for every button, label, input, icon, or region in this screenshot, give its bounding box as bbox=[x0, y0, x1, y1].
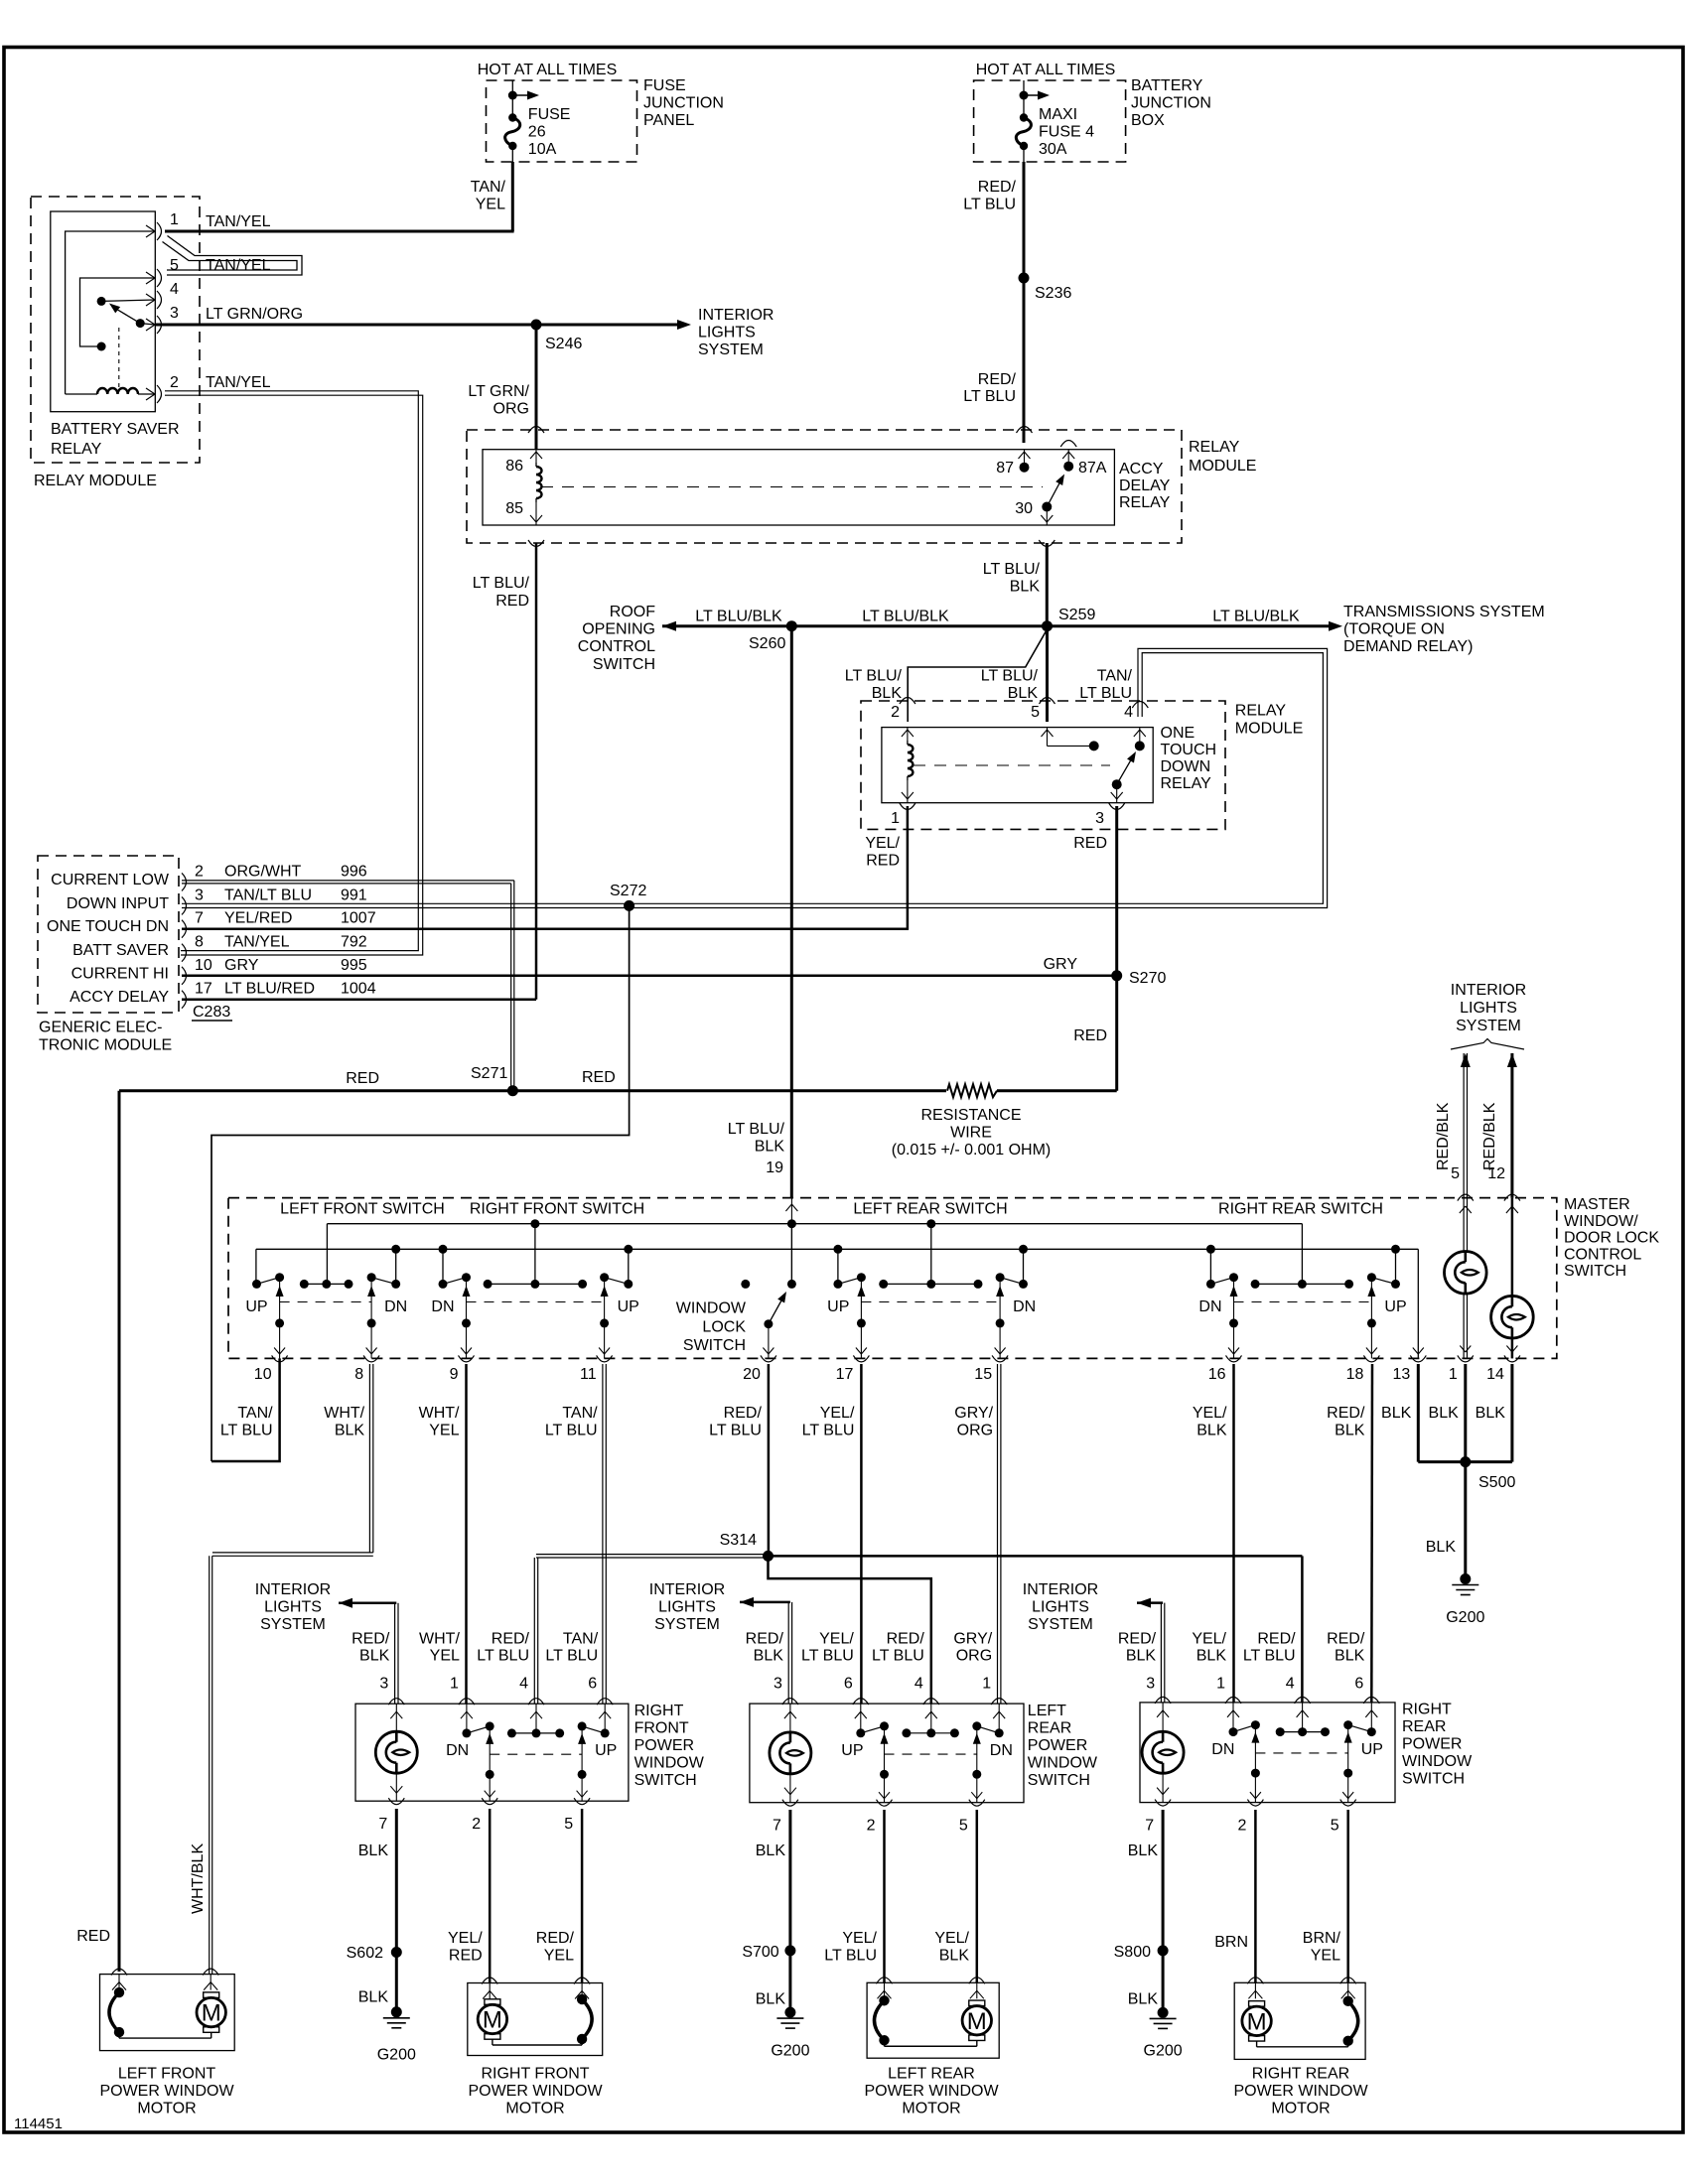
svg-text:SWITCH: SWITCH bbox=[1028, 1772, 1090, 1789]
svg-text:4: 4 bbox=[914, 1676, 923, 1693]
svg-text:G200: G200 bbox=[377, 2046, 416, 2063]
svg-text:CURRENT LOW: CURRENT LOW bbox=[51, 872, 170, 888]
svg-text:BLK: BLK bbox=[756, 1843, 786, 1859]
svg-text:ONE: ONE bbox=[1161, 725, 1196, 742]
svg-text:BRN: BRN bbox=[1214, 1934, 1248, 1951]
svg-text:6: 6 bbox=[1354, 1676, 1363, 1693]
svg-text:26: 26 bbox=[528, 124, 546, 141]
svg-text:RED: RED bbox=[495, 593, 529, 610]
svg-text:2: 2 bbox=[1237, 1818, 1246, 1835]
svg-text:POWER: POWER bbox=[1028, 1737, 1087, 1754]
svg-text:PANEL: PANEL bbox=[643, 112, 694, 129]
svg-text:LT GRN/: LT GRN/ bbox=[468, 383, 529, 400]
svg-text:1007: 1007 bbox=[341, 910, 376, 927]
svg-text:(0.015 +/- 0.001 OHM): (0.015 +/- 0.001 OHM) bbox=[892, 1142, 1052, 1159]
svg-text:SWITCH: SWITCH bbox=[1402, 1771, 1465, 1788]
svg-text:LT BLU: LT BLU bbox=[220, 1423, 273, 1439]
svg-text:DN: DN bbox=[1198, 1298, 1221, 1315]
svg-text:BLK: BLK bbox=[1126, 1647, 1157, 1664]
svg-text:FRONT: FRONT bbox=[634, 1720, 689, 1737]
svg-text:UP: UP bbox=[1361, 1741, 1383, 1758]
svg-text:2: 2 bbox=[891, 704, 900, 721]
svg-text:BLK: BLK bbox=[1335, 1647, 1365, 1664]
svg-text:10: 10 bbox=[195, 957, 212, 974]
svg-text:1: 1 bbox=[1216, 1676, 1225, 1693]
svg-text:2: 2 bbox=[170, 374, 179, 391]
svg-text:TRANSMISSIONS SYSTEM: TRANSMISSIONS SYSTEM bbox=[1343, 604, 1545, 620]
svg-text:RED/: RED/ bbox=[536, 1930, 575, 1947]
svg-text:LEFT REAR SWITCH: LEFT REAR SWITCH bbox=[853, 1201, 1007, 1218]
svg-text:5: 5 bbox=[1031, 704, 1040, 721]
svg-text:BOX: BOX bbox=[1131, 112, 1165, 129]
svg-text:LT BLU/BLK: LT BLU/BLK bbox=[862, 609, 949, 625]
svg-text:7: 7 bbox=[773, 1818, 781, 1835]
svg-text:S259: S259 bbox=[1058, 607, 1095, 623]
svg-text:HOT AT ALL TIMES: HOT AT ALL TIMES bbox=[976, 62, 1116, 78]
svg-text:SYSTEM: SYSTEM bbox=[260, 1616, 326, 1633]
svg-text:(TORQUE ON: (TORQUE ON bbox=[1343, 621, 1445, 638]
svg-text:ONE TOUCH DN: ONE TOUCH DN bbox=[47, 918, 169, 935]
svg-text:MODULE: MODULE bbox=[1189, 458, 1256, 475]
svg-text:10: 10 bbox=[254, 1366, 272, 1383]
svg-text:9: 9 bbox=[450, 1366, 459, 1383]
svg-text:LT BLU: LT BLU bbox=[872, 1647, 924, 1664]
svg-text:ACCY DELAY: ACCY DELAY bbox=[70, 989, 169, 1006]
svg-text:UP: UP bbox=[1384, 1298, 1406, 1315]
svg-text:RELAY: RELAY bbox=[1119, 494, 1171, 511]
svg-text:MODULE: MODULE bbox=[1235, 721, 1303, 738]
svg-text:MOTOR: MOTOR bbox=[1271, 2101, 1330, 2117]
svg-text:RED/: RED/ bbox=[746, 1630, 784, 1647]
svg-text:5: 5 bbox=[1451, 1165, 1460, 1182]
svg-text:17: 17 bbox=[836, 1366, 854, 1383]
svg-text:995: 995 bbox=[341, 957, 367, 974]
svg-text:S270: S270 bbox=[1129, 970, 1166, 987]
svg-text:UP: UP bbox=[595, 1742, 617, 1759]
svg-text:WINDOW/: WINDOW/ bbox=[1564, 1213, 1638, 1230]
svg-text:ORG: ORG bbox=[493, 401, 529, 418]
svg-text:5: 5 bbox=[564, 1816, 573, 1833]
svg-text:WIRE: WIRE bbox=[950, 1125, 992, 1142]
svg-text:INTERIOR: INTERIOR bbox=[255, 1581, 331, 1598]
svg-text:G200: G200 bbox=[1446, 1609, 1484, 1626]
svg-text:1: 1 bbox=[1449, 1366, 1458, 1383]
svg-text:POWER: POWER bbox=[634, 1737, 694, 1754]
svg-text:6: 6 bbox=[844, 1676, 853, 1693]
svg-text:RED/: RED/ bbox=[1327, 1405, 1365, 1422]
svg-text:LT BLU/: LT BLU/ bbox=[473, 575, 530, 592]
svg-text:RED/: RED/ bbox=[978, 179, 1017, 196]
svg-text:M: M bbox=[202, 2000, 221, 2027]
svg-text:RED/: RED/ bbox=[1257, 1630, 1296, 1647]
svg-text:BLK: BLK bbox=[1128, 1990, 1159, 2007]
svg-text:10A: 10A bbox=[528, 141, 557, 158]
svg-text:LT BLU: LT BLU bbox=[477, 1647, 529, 1664]
svg-text:GRY: GRY bbox=[224, 957, 259, 974]
svg-text:14: 14 bbox=[1486, 1366, 1504, 1383]
svg-text:LT BLU/: LT BLU/ bbox=[728, 1121, 785, 1138]
svg-text:YEL/: YEL/ bbox=[448, 1930, 483, 1947]
svg-text:INTERIOR: INTERIOR bbox=[1451, 982, 1526, 999]
svg-text:DEMAND RELAY): DEMAND RELAY) bbox=[1343, 638, 1473, 655]
svg-text:RED/: RED/ bbox=[492, 1630, 530, 1647]
svg-text:TAN/: TAN/ bbox=[1097, 668, 1133, 685]
svg-text:87: 87 bbox=[996, 460, 1014, 477]
svg-text:BLK: BLK bbox=[1196, 1647, 1227, 1664]
svg-text:LEFT FRONT: LEFT FRONT bbox=[118, 2066, 216, 2083]
svg-text:FUSE: FUSE bbox=[528, 106, 571, 123]
svg-text:UP: UP bbox=[618, 1298, 639, 1315]
svg-text:16: 16 bbox=[1208, 1366, 1226, 1383]
svg-text:YEL/: YEL/ bbox=[1192, 1630, 1226, 1647]
svg-text:JUNCTION: JUNCTION bbox=[643, 95, 724, 112]
svg-text:CURRENT HI: CURRENT HI bbox=[71, 965, 169, 982]
svg-text:BLK: BLK bbox=[1476, 1405, 1506, 1422]
svg-text:RIGHT FRONT: RIGHT FRONT bbox=[481, 2066, 589, 2083]
svg-text:BLK: BLK bbox=[1429, 1405, 1460, 1422]
svg-text:WINDOW: WINDOW bbox=[1028, 1754, 1098, 1771]
svg-text:INTERIOR: INTERIOR bbox=[1023, 1581, 1098, 1598]
svg-text:M: M bbox=[1247, 2008, 1267, 2035]
svg-text:3: 3 bbox=[1146, 1676, 1155, 1693]
svg-text:DN: DN bbox=[1211, 1741, 1234, 1758]
svg-text:RIGHT REAR SWITCH: RIGHT REAR SWITCH bbox=[1218, 1201, 1383, 1218]
svg-text:DELAY: DELAY bbox=[1119, 478, 1171, 494]
svg-text:WINDOW: WINDOW bbox=[634, 1755, 705, 1772]
svg-text:ORG: ORG bbox=[956, 1647, 992, 1664]
svg-text:LT BLU/: LT BLU/ bbox=[983, 561, 1041, 578]
svg-text:BLK: BLK bbox=[335, 1423, 365, 1439]
svg-text:TRONIC MODULE: TRONIC MODULE bbox=[39, 1037, 172, 1054]
svg-text:RELAY: RELAY bbox=[1189, 439, 1240, 456]
svg-text:13: 13 bbox=[1393, 1366, 1411, 1383]
svg-text:ORG/WHT: ORG/WHT bbox=[224, 863, 302, 880]
svg-text:RELAY MODULE: RELAY MODULE bbox=[34, 473, 157, 489]
svg-text:LT BLU: LT BLU bbox=[1243, 1647, 1296, 1664]
svg-text:LIGHTS: LIGHTS bbox=[658, 1599, 716, 1616]
svg-text:RED: RED bbox=[582, 1069, 616, 1086]
svg-text:WHT/: WHT/ bbox=[324, 1405, 364, 1422]
svg-text:BLK: BLK bbox=[939, 1948, 970, 1965]
svg-text:30: 30 bbox=[1015, 500, 1033, 517]
svg-text:RED: RED bbox=[346, 1070, 379, 1087]
svg-text:7: 7 bbox=[195, 910, 204, 927]
svg-text:RED/: RED/ bbox=[724, 1405, 763, 1422]
svg-text:INTERIOR: INTERIOR bbox=[698, 307, 774, 324]
svg-text:996: 996 bbox=[341, 863, 367, 880]
svg-text:UP: UP bbox=[827, 1298, 849, 1315]
svg-text:LT BLU/RED: LT BLU/RED bbox=[224, 981, 315, 998]
svg-text:WHT/: WHT/ bbox=[419, 1405, 460, 1422]
svg-text:DOWN INPUT: DOWN INPUT bbox=[67, 895, 169, 912]
svg-text:S500: S500 bbox=[1478, 1474, 1515, 1491]
svg-text:S602: S602 bbox=[347, 1945, 383, 1962]
svg-text:INTERIOR: INTERIOR bbox=[649, 1581, 725, 1598]
svg-text:RED: RED bbox=[866, 853, 900, 870]
svg-text:RELAY: RELAY bbox=[1235, 703, 1287, 720]
svg-text:SWITCH: SWITCH bbox=[1564, 1263, 1626, 1280]
svg-text:114451: 114451 bbox=[14, 2116, 63, 2132]
svg-text:LIGHTS: LIGHTS bbox=[698, 325, 756, 341]
svg-text:S700: S700 bbox=[742, 1944, 778, 1961]
svg-text:3: 3 bbox=[170, 305, 179, 322]
svg-text:YEL/: YEL/ bbox=[865, 835, 900, 852]
svg-text:TOUCH: TOUCH bbox=[1161, 742, 1217, 758]
svg-text:RED: RED bbox=[1073, 1027, 1107, 1044]
svg-text:OPENING: OPENING bbox=[582, 621, 655, 638]
svg-text:3: 3 bbox=[774, 1676, 782, 1693]
svg-text:CONTROL: CONTROL bbox=[578, 638, 655, 655]
svg-text:YEL/: YEL/ bbox=[1193, 1405, 1227, 1422]
svg-text:4: 4 bbox=[1124, 704, 1133, 721]
svg-text:4: 4 bbox=[519, 1676, 528, 1693]
svg-text:WINDOW: WINDOW bbox=[1402, 1753, 1473, 1770]
svg-text:BLK: BLK bbox=[1010, 579, 1041, 596]
svg-text:LOCK: LOCK bbox=[702, 1319, 746, 1336]
svg-text:YEL: YEL bbox=[429, 1423, 459, 1439]
svg-text:1004: 1004 bbox=[341, 981, 376, 998]
svg-text:ACCY: ACCY bbox=[1119, 461, 1164, 478]
svg-text:POWER WINDOW: POWER WINDOW bbox=[468, 2083, 603, 2100]
svg-text:LT BLU: LT BLU bbox=[801, 1647, 854, 1664]
svg-text:DN: DN bbox=[990, 1742, 1013, 1759]
svg-text:19: 19 bbox=[766, 1160, 783, 1176]
svg-text:4: 4 bbox=[170, 281, 179, 298]
svg-text:2: 2 bbox=[195, 863, 204, 880]
svg-text:YEL/: YEL/ bbox=[842, 1930, 877, 1947]
svg-text:RIGHT: RIGHT bbox=[1402, 1702, 1452, 1718]
svg-text:11: 11 bbox=[580, 1366, 597, 1383]
svg-text:BLK: BLK bbox=[1335, 1423, 1365, 1439]
svg-text:ORG: ORG bbox=[957, 1423, 993, 1439]
svg-text:TAN/: TAN/ bbox=[237, 1405, 273, 1422]
svg-text:LEFT FRONT SWITCH: LEFT FRONT SWITCH bbox=[280, 1201, 445, 1218]
svg-text:YEL/: YEL/ bbox=[819, 1630, 854, 1647]
svg-text:RESISTANCE: RESISTANCE bbox=[920, 1107, 1021, 1124]
svg-text:17: 17 bbox=[195, 981, 212, 998]
svg-text:BATTERY: BATTERY bbox=[1131, 77, 1203, 94]
svg-text:3: 3 bbox=[195, 887, 204, 903]
svg-text:M: M bbox=[967, 2008, 987, 2035]
svg-text:BATT SAVER: BATT SAVER bbox=[72, 942, 169, 959]
svg-text:MASTER: MASTER bbox=[1564, 1196, 1630, 1213]
svg-text:YEL: YEL bbox=[430, 1647, 460, 1664]
svg-text:UP: UP bbox=[245, 1298, 267, 1315]
svg-text:DOOR LOCK: DOOR LOCK bbox=[1564, 1230, 1659, 1247]
svg-text:991: 991 bbox=[341, 887, 367, 903]
svg-text:TAN/: TAN/ bbox=[563, 1630, 599, 1647]
svg-text:ROOF: ROOF bbox=[610, 604, 655, 620]
svg-text:S246: S246 bbox=[545, 336, 582, 352]
svg-text:YEL: YEL bbox=[476, 197, 505, 213]
svg-text:SYSTEM: SYSTEM bbox=[1028, 1616, 1093, 1633]
svg-text:WINDOW: WINDOW bbox=[676, 1300, 747, 1317]
svg-text:BLK: BLK bbox=[1381, 1405, 1412, 1422]
svg-text:LT BLU: LT BLU bbox=[963, 388, 1016, 405]
svg-text:YEL/RED: YEL/RED bbox=[224, 910, 292, 927]
svg-text:LT BLU/: LT BLU/ bbox=[845, 668, 903, 685]
svg-text:LT BLU: LT BLU bbox=[545, 1647, 598, 1664]
svg-text:BLK: BLK bbox=[755, 1139, 785, 1156]
svg-text:TAN/: TAN/ bbox=[471, 179, 506, 196]
svg-text:G200: G200 bbox=[1144, 2043, 1183, 2060]
svg-text:SYSTEM: SYSTEM bbox=[654, 1616, 720, 1633]
svg-text:85: 85 bbox=[505, 500, 523, 517]
svg-text:WHT/: WHT/ bbox=[419, 1630, 460, 1647]
svg-text:CONTROL: CONTROL bbox=[1564, 1246, 1641, 1263]
svg-text:S800: S800 bbox=[1114, 1944, 1151, 1961]
svg-text:RIGHT: RIGHT bbox=[634, 1703, 684, 1719]
svg-text:5: 5 bbox=[170, 257, 179, 274]
svg-text:BLK: BLK bbox=[1128, 1843, 1159, 1859]
svg-text:15: 15 bbox=[974, 1366, 992, 1383]
svg-text:4: 4 bbox=[1286, 1676, 1295, 1693]
svg-text:YEL: YEL bbox=[1311, 1948, 1340, 1965]
svg-text:TAN/YEL: TAN/YEL bbox=[206, 213, 271, 230]
svg-text:18: 18 bbox=[1346, 1366, 1364, 1383]
svg-text:BLK: BLK bbox=[754, 1647, 784, 1664]
svg-text:RED/: RED/ bbox=[1118, 1630, 1157, 1647]
svg-text:S271: S271 bbox=[471, 1065, 507, 1082]
svg-text:3: 3 bbox=[1095, 810, 1104, 827]
svg-text:7: 7 bbox=[1145, 1818, 1154, 1835]
svg-text:G200: G200 bbox=[771, 2043, 809, 2060]
svg-text:RELAY: RELAY bbox=[51, 441, 102, 458]
svg-text:LIGHTS: LIGHTS bbox=[264, 1599, 322, 1616]
svg-text:8: 8 bbox=[354, 1366, 363, 1383]
svg-text:BRN/: BRN/ bbox=[1303, 1930, 1341, 1947]
svg-text:BLK: BLK bbox=[1008, 685, 1039, 702]
svg-text:BLK: BLK bbox=[1196, 1423, 1227, 1439]
svg-text:12: 12 bbox=[1487, 1165, 1505, 1182]
svg-text:RIGHT FRONT SWITCH: RIGHT FRONT SWITCH bbox=[470, 1201, 644, 1218]
svg-text:BLK: BLK bbox=[756, 1990, 786, 2007]
svg-text:792: 792 bbox=[341, 934, 367, 951]
svg-text:JUNCTION: JUNCTION bbox=[1131, 95, 1211, 112]
svg-text:BLK: BLK bbox=[872, 685, 903, 702]
svg-text:BLK: BLK bbox=[1426, 1539, 1457, 1556]
svg-text:FUSE: FUSE bbox=[643, 77, 686, 94]
svg-text:GRY/: GRY/ bbox=[953, 1630, 992, 1647]
svg-text:LT GRN/ORG: LT GRN/ORG bbox=[206, 306, 303, 323]
svg-text:2: 2 bbox=[472, 1816, 481, 1833]
svg-text:1: 1 bbox=[450, 1676, 459, 1693]
svg-text:REAR: REAR bbox=[1402, 1718, 1446, 1735]
svg-text:LT BLU: LT BLU bbox=[545, 1423, 598, 1439]
svg-text:8: 8 bbox=[195, 934, 204, 951]
svg-text:UP: UP bbox=[841, 1742, 863, 1759]
svg-text:LT BLU: LT BLU bbox=[963, 197, 1016, 213]
svg-text:S260: S260 bbox=[749, 635, 785, 652]
svg-text:LT BLU/BLK: LT BLU/BLK bbox=[1212, 609, 1300, 625]
svg-text:DN: DN bbox=[446, 1742, 469, 1759]
svg-text:SWITCH: SWITCH bbox=[634, 1772, 697, 1789]
svg-text:86: 86 bbox=[505, 458, 523, 475]
svg-text:YEL/: YEL/ bbox=[820, 1405, 855, 1422]
svg-text:LIGHTS: LIGHTS bbox=[1032, 1599, 1089, 1616]
svg-text:LEFT REAR: LEFT REAR bbox=[888, 2066, 975, 2083]
svg-text:20: 20 bbox=[743, 1366, 761, 1383]
svg-text:REAR: REAR bbox=[1028, 1719, 1071, 1736]
svg-text:S236: S236 bbox=[1035, 285, 1071, 302]
svg-text:DN: DN bbox=[1013, 1298, 1036, 1315]
svg-text:LIGHTS: LIGHTS bbox=[1460, 1000, 1517, 1017]
svg-text:YEL: YEL bbox=[544, 1948, 574, 1965]
svg-text:S272: S272 bbox=[610, 883, 646, 899]
svg-text:6: 6 bbox=[588, 1676, 597, 1693]
svg-text:1: 1 bbox=[891, 810, 900, 827]
svg-text:DN: DN bbox=[384, 1298, 407, 1315]
svg-text:MOTOR: MOTOR bbox=[902, 2101, 960, 2117]
svg-text:GRY: GRY bbox=[1044, 956, 1078, 973]
svg-text:1: 1 bbox=[170, 211, 179, 228]
svg-text:M: M bbox=[483, 2007, 502, 2034]
svg-text:5: 5 bbox=[959, 1818, 968, 1835]
svg-text:BLK: BLK bbox=[358, 1988, 389, 2005]
svg-text:MAXI: MAXI bbox=[1039, 106, 1077, 123]
svg-text:3: 3 bbox=[379, 1676, 388, 1693]
svg-text:7: 7 bbox=[378, 1816, 387, 1833]
svg-text:LT BLU/: LT BLU/ bbox=[981, 668, 1039, 685]
svg-text:LEFT: LEFT bbox=[1028, 1703, 1066, 1719]
svg-text:DN: DN bbox=[431, 1298, 454, 1315]
svg-text:POWER WINDOW: POWER WINDOW bbox=[864, 2083, 999, 2100]
svg-text:FUSE 4: FUSE 4 bbox=[1039, 124, 1094, 141]
svg-text:TAN/YEL: TAN/YEL bbox=[206, 374, 271, 391]
svg-text:MOTOR: MOTOR bbox=[505, 2101, 564, 2117]
svg-text:BLK: BLK bbox=[359, 1647, 390, 1664]
svg-text:POWER WINDOW: POWER WINDOW bbox=[99, 2083, 234, 2100]
svg-text:1: 1 bbox=[982, 1676, 991, 1693]
svg-text:LT BLU: LT BLU bbox=[1079, 685, 1132, 702]
svg-text:RED/: RED/ bbox=[887, 1630, 925, 1647]
svg-text:C283: C283 bbox=[193, 1004, 230, 1021]
svg-text:GRY/: GRY/ bbox=[954, 1405, 993, 1422]
svg-text:YEL/: YEL/ bbox=[934, 1930, 969, 1947]
svg-text:TAN/YEL: TAN/YEL bbox=[206, 257, 271, 274]
svg-text:87A: 87A bbox=[1078, 460, 1107, 477]
svg-text:RIGHT REAR: RIGHT REAR bbox=[1252, 2066, 1349, 2083]
svg-text:DOWN: DOWN bbox=[1161, 758, 1211, 775]
svg-text:HOT AT ALL TIMES: HOT AT ALL TIMES bbox=[478, 62, 618, 78]
svg-text:2: 2 bbox=[867, 1818, 876, 1835]
svg-text:TAN/LT BLU: TAN/LT BLU bbox=[224, 887, 312, 903]
svg-text:POWER WINDOW: POWER WINDOW bbox=[1233, 2083, 1368, 2100]
svg-text:GENERIC ELEC-: GENERIC ELEC- bbox=[39, 1020, 162, 1036]
svg-text:LT BLU: LT BLU bbox=[802, 1423, 855, 1439]
svg-text:TAN/YEL: TAN/YEL bbox=[224, 934, 290, 951]
svg-text:RED/BLK: RED/BLK bbox=[1481, 1102, 1498, 1170]
svg-text:30A: 30A bbox=[1039, 141, 1067, 158]
svg-text:POWER: POWER bbox=[1402, 1736, 1462, 1753]
svg-text:SWITCH: SWITCH bbox=[683, 1337, 746, 1354]
svg-text:S314: S314 bbox=[720, 1532, 757, 1549]
svg-text:TAN/: TAN/ bbox=[562, 1405, 598, 1422]
svg-text:5: 5 bbox=[1331, 1818, 1339, 1835]
svg-text:RED/: RED/ bbox=[352, 1630, 390, 1647]
svg-text:RED/: RED/ bbox=[978, 371, 1017, 388]
svg-text:LT BLU/BLK: LT BLU/BLK bbox=[695, 609, 782, 625]
svg-text:SYSTEM: SYSTEM bbox=[698, 341, 764, 358]
svg-text:WHT/BLK: WHT/BLK bbox=[190, 1843, 207, 1914]
svg-text:RED: RED bbox=[449, 1948, 483, 1965]
svg-text:RED: RED bbox=[1073, 835, 1107, 852]
svg-text:RED: RED bbox=[76, 1928, 110, 1945]
svg-text:BLK: BLK bbox=[358, 1843, 389, 1859]
svg-text:RELAY: RELAY bbox=[1161, 775, 1212, 792]
svg-text:RED/: RED/ bbox=[1327, 1630, 1365, 1647]
svg-text:LT BLU: LT BLU bbox=[824, 1948, 877, 1965]
